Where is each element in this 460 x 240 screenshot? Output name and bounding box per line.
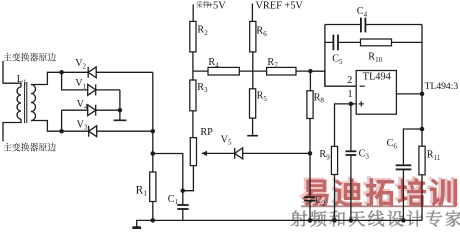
node C3 rail junction (349, 218, 354, 223)
node V1/V4 junction (118, 108, 123, 113)
node output junction (420, 92, 425, 97)
svg-text:1: 1 (348, 89, 353, 100)
resistor R6 (250, 21, 267, 52)
capacitor C2 (304, 195, 326, 207)
svg-text:VREF +5V: VREF +5V (256, 0, 304, 11)
resistor R8 (307, 71, 324, 118)
wire R8 to C2 (309, 119, 311, 198)
wire bottom pair feed (62, 110, 153, 131)
resistor R4 (208, 57, 239, 75)
resistor R3 (190, 80, 208, 111)
ground stub at V1/V4 bus (114, 119, 127, 121)
wire R9 to rail (334, 175, 336, 221)
wire RP bottom lead (183, 166, 194, 191)
wire C3 to rail (350, 155, 352, 220)
node pin1 junction (349, 102, 354, 107)
wire sampling supply lead (192, 4, 194, 21)
wire V2 cathode down main sense column (152, 72, 154, 172)
wire C2 to rail (309, 201, 311, 221)
wire V4 row (62, 109, 120, 111)
diode V5 (221, 134, 243, 159)
wire C5/R10 row (325, 41, 422, 43)
node C2 rail junction (308, 218, 313, 223)
wire R3 to RP (192, 111, 194, 138)
wire TL494 output (396, 93, 422, 95)
op-amp U1 TL494 error amplifier (356, 71, 396, 115)
node V5 joins R8/C2 (308, 151, 313, 156)
wire feedback right vertical (421, 25, 423, 94)
wire V2 anode row (62, 71, 153, 73)
wire V5 to R8/C2 node (243, 152, 310, 154)
wire C6 to rail (402, 169, 404, 220)
node R7/R8/pin2 junction (308, 69, 313, 74)
svg-text:主变换器原边: 主变换器原边 (3, 141, 56, 154)
diode V3 (77, 119, 97, 136)
svg-text:TL494: TL494 (363, 71, 392, 82)
wire V1-V4 cathode bus (119, 90, 121, 120)
transformer L1 (3, 61, 36, 142)
node junction bottom secondary (59, 129, 64, 134)
wire R1 to ground rail (152, 202, 154, 221)
wire R4/R7 row (193, 70, 311, 72)
wire top pair feed (62, 72, 120, 90)
wire transformer secondary bottom lead (31, 121, 62, 132)
capacitor C5 (332, 35, 343, 66)
resistor R5 (250, 89, 268, 118)
svg-text:射频和天线设计专家: 射频和天线设计专家 (290, 205, 460, 229)
wire R5 lower lead (252, 118, 254, 135)
resistor R10 (361, 39, 392, 64)
wire junction to TL494 pin 2 (310, 71, 356, 86)
wire branch to C6 (403, 129, 422, 165)
resistor R7 (267, 57, 296, 75)
capacitor C1 (168, 194, 189, 209)
wire pin 1 network (335, 104, 357, 146)
node V3 joins column (151, 129, 156, 134)
node R9 rail junction (332, 218, 337, 223)
wire feedback left vertical (324, 25, 326, 87)
svg-text:TL494:3: TL494:3 (425, 81, 459, 92)
node RP bottom joins C1 line (181, 188, 186, 193)
wire transformer secondary top lead (31, 72, 62, 84)
diode V2 (75, 58, 96, 78)
capacitor C3 (346, 148, 370, 160)
diode V1 (75, 78, 96, 95)
capacitor C4 (357, 6, 368, 32)
ground stub below R5 (247, 135, 258, 137)
resistor R1 (136, 172, 156, 202)
svg-text:+5V: +5V (207, 0, 226, 11)
wire R6 to R5 (252, 52, 254, 89)
wire R11 to rail (421, 175, 423, 221)
svg-text:2: 2 (347, 75, 352, 86)
wire output down (421, 94, 423, 146)
wire C1 to rail (182, 209, 184, 220)
ground symbol (132, 220, 141, 227)
node C1/RP branch (151, 151, 156, 156)
resistor R9 (319, 146, 337, 174)
capacitor C6 (387, 138, 412, 169)
resistor R2 (190, 21, 208, 52)
svg-text:主变换器原边: 主变换器原边 (3, 51, 56, 64)
node C6 rail junction (401, 218, 406, 223)
node R1 rail junction (151, 218, 156, 223)
wire branch to C1 (153, 154, 183, 206)
wire C3 branch (350, 104, 352, 151)
potentiometer RP (190, 127, 213, 166)
wire VREF supply lead (251, 4, 253, 22)
node C6/R11 junction (420, 127, 425, 132)
wire R2 to R3 (192, 52, 194, 80)
wire RP wiper to V5 (206, 152, 235, 154)
resistor R11 (419, 146, 441, 175)
node junction top secondary (59, 70, 64, 75)
diode V4 (77, 99, 96, 116)
svg-text:RP: RP (200, 127, 213, 138)
wire ground rail (136, 219, 422, 221)
wire C4 top row (325, 24, 422, 26)
